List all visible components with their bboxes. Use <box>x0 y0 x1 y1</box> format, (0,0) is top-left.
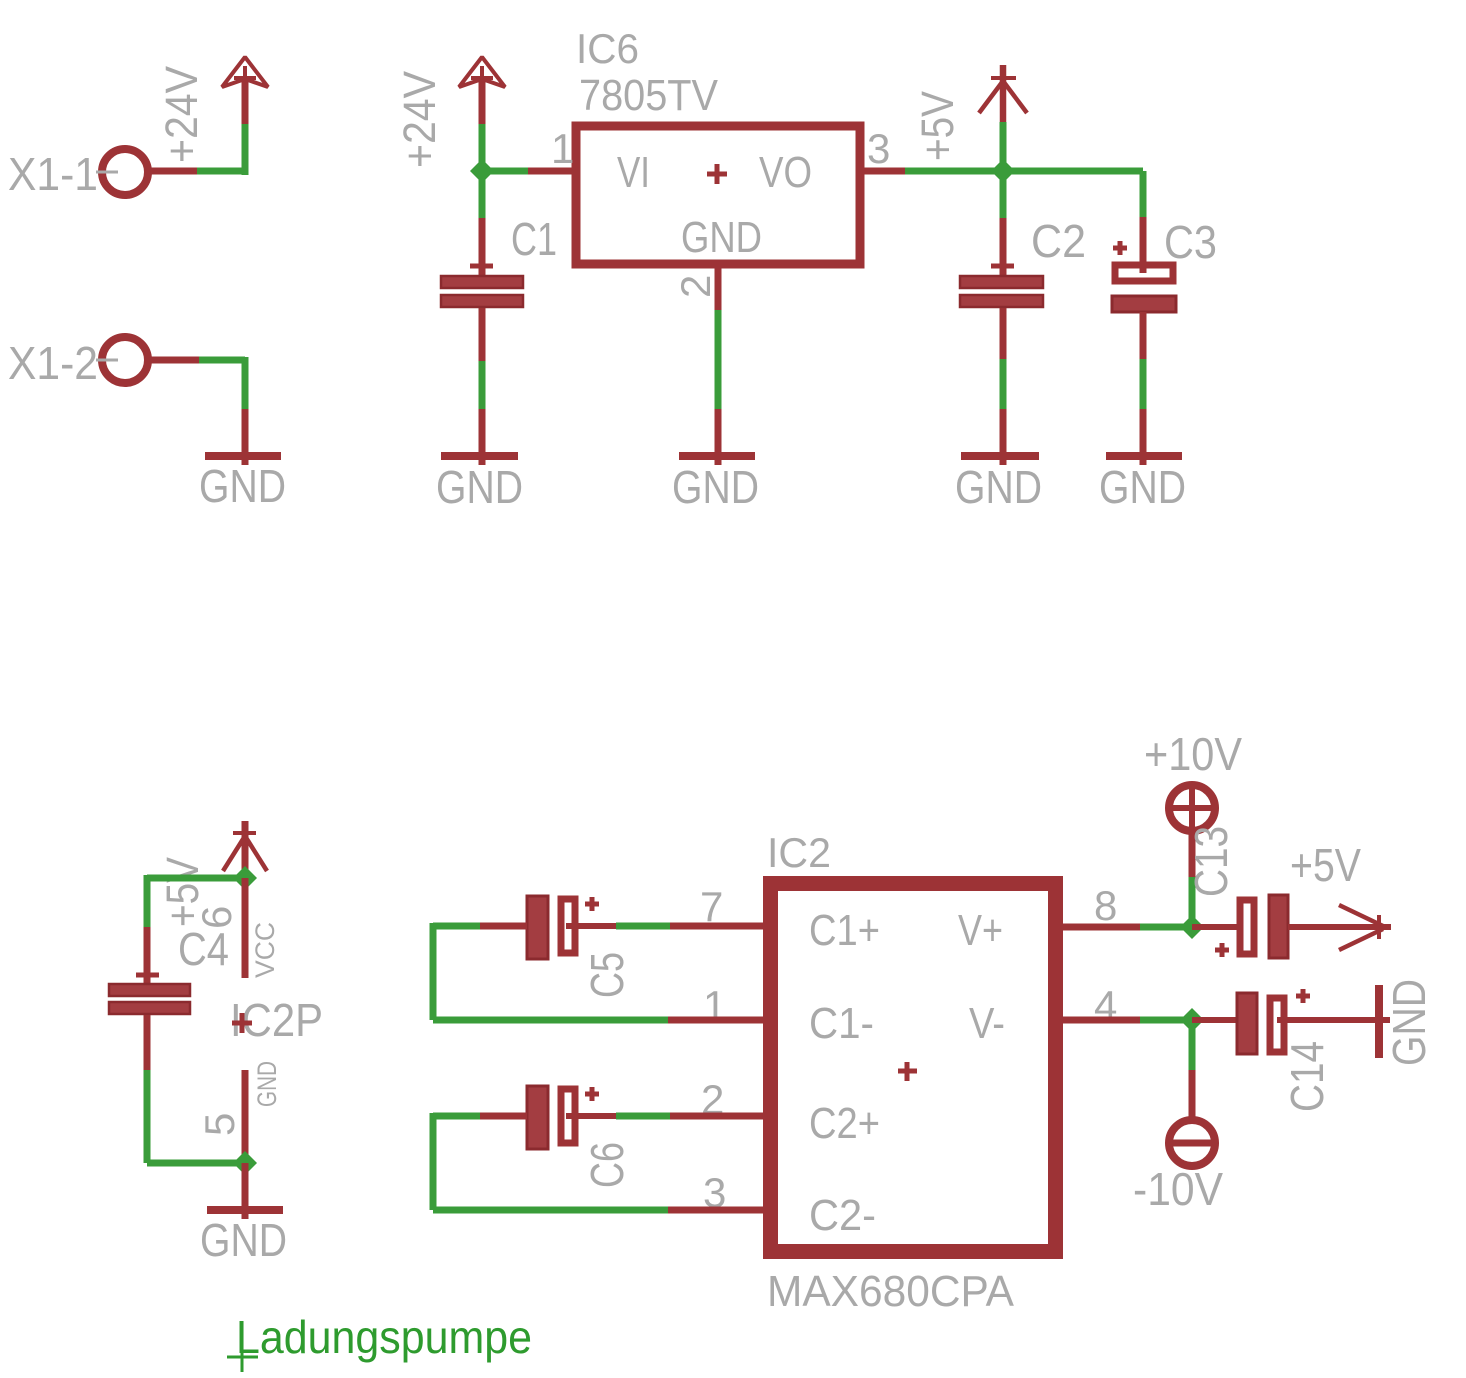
svg-text:GND: GND <box>199 460 286 512</box>
ground symbol (IC6 pin2) <box>672 456 759 513</box>
supply +5V arrow (top) <box>912 78 1027 161</box>
wire C5 left to pin 1 <box>433 923 668 1020</box>
wire junction to C13 <box>1192 924 1248 930</box>
svg-text:C5: C5 <box>581 952 633 998</box>
wire junction to C14 <box>1192 1017 1240 1023</box>
svg-text:+5V: +5V <box>912 91 963 161</box>
pin 1 (VI) of IC6 <box>482 125 574 172</box>
svg-text:IC6: IC6 <box>576 25 639 72</box>
wire C3 to GND <box>1140 312 1147 465</box>
svg-text:V-: V- <box>969 999 1005 1048</box>
svg-text:+24V: +24V <box>156 66 207 163</box>
svg-text:X1-2: X1-2 <box>8 337 98 389</box>
pin 3 (C2-) of IC2 <box>668 1169 763 1216</box>
node junction +5V <box>991 159 1015 183</box>
svg-text:VI: VI <box>617 148 650 197</box>
svg-text:C1+: C1+ <box>809 906 880 955</box>
svg-text:GND: GND <box>1099 461 1186 513</box>
svg-text:MAX680CPA: MAX680CPA <box>767 1267 1015 1316</box>
pin 6 VCC of IC2P <box>193 878 280 978</box>
wire junction to GND symbol <box>242 1163 249 1219</box>
ground symbol (C3) <box>1099 456 1186 513</box>
svg-text:C4: C4 <box>178 923 229 975</box>
node junction V+ <box>1180 915 1204 939</box>
svg-text:C2-: C2- <box>809 1191 876 1240</box>
frame label Ladungspumpe <box>227 1311 532 1372</box>
supply +24V arrow (IC6) <box>394 57 505 168</box>
electrolytic capacitor C5 <box>527 896 633 998</box>
svg-text:C2: C2 <box>1031 215 1086 267</box>
svg-text:GND: GND <box>436 461 523 513</box>
svg-text:3: 3 <box>867 125 890 172</box>
svg-text:C13: C13 <box>1185 826 1237 897</box>
wire C14 to GND <box>1287 1017 1390 1023</box>
svg-text:GND: GND <box>681 213 762 262</box>
wire C6 left to pin 3 <box>433 1113 668 1210</box>
voltage regulator IC6 7805TV <box>576 25 860 264</box>
svg-text:7805TV: 7805TV <box>579 71 719 120</box>
svg-text:8: 8 <box>1094 882 1117 929</box>
svg-text:GND: GND <box>200 1214 287 1266</box>
svg-text:C6: C6 <box>581 1142 633 1188</box>
node junction V- <box>1180 1008 1204 1032</box>
supply -10V circle <box>1133 1120 1223 1215</box>
wire C1 to GND <box>479 308 486 465</box>
supply +5V arrow (right) <box>1290 839 1383 950</box>
ground symbol (X1-2) <box>199 456 286 512</box>
wire junction to +5V arrow <box>1000 65 1007 171</box>
wire junction to C4 top <box>147 875 245 983</box>
svg-text:+5V: +5V <box>1290 839 1361 891</box>
svg-text:C1-: C1- <box>809 999 874 1048</box>
electrolytic capacitor C13 <box>1185 826 1288 958</box>
svg-text:-10V: -10V <box>1133 1163 1223 1215</box>
charge pump IC2 MAX680CPA <box>767 829 1056 1316</box>
svg-text:GND: GND <box>672 461 759 513</box>
ground symbol (C1) <box>436 456 523 513</box>
svg-text:C2+: C2+ <box>809 1099 880 1148</box>
ground symbol (IC2P) <box>200 1210 287 1266</box>
pin 8 (V+) of IC2 <box>1056 882 1192 929</box>
svg-text:+24V: +24V <box>394 71 445 168</box>
pin 3 (VO) of IC6 <box>860 125 1003 172</box>
svg-text:5: 5 <box>196 1113 243 1136</box>
capacitor C1 <box>441 213 557 307</box>
electrolytic capacitor C14 <box>1237 989 1333 1112</box>
capacitor C4 <box>109 923 229 1014</box>
wire C13 to +5V arrow <box>1288 924 1391 930</box>
pin 2 (C2+) of IC2 <box>616 1076 763 1123</box>
wire X1-2 to GND <box>151 357 245 465</box>
svg-text:Ladungspumpe: Ladungspumpe <box>236 1311 532 1363</box>
wire junction to C2 <box>1000 171 1007 275</box>
supply +10V circle <box>1144 728 1242 831</box>
wire C2 to GND <box>1000 308 1007 465</box>
wire junction to C3 <box>1003 171 1143 273</box>
svg-text:GND: GND <box>1383 979 1435 1066</box>
svg-text:1: 1 <box>551 125 574 172</box>
svg-text:C14: C14 <box>1281 1041 1333 1112</box>
wire junction to C1 <box>479 171 486 275</box>
svg-text:GND: GND <box>252 1061 282 1107</box>
ground symbol (C14, rotated) <box>1379 979 1435 1066</box>
wire junction to -10V <box>1189 1020 1196 1120</box>
pin 1 (C1-) of IC2 <box>668 982 763 1029</box>
svg-text:C3: C3 <box>1164 216 1217 268</box>
svg-text:VO: VO <box>759 148 812 197</box>
node junction VCC <box>233 866 257 890</box>
electrolytic capacitor C3 <box>1112 216 1217 312</box>
svg-text:IC2: IC2 <box>767 829 831 876</box>
wire X1-1 to +24V <box>151 78 245 175</box>
pin 4 (V-) of IC2 <box>1056 982 1192 1029</box>
svg-text:V+: V+ <box>958 906 1003 955</box>
connector pad X1-1 <box>8 148 148 200</box>
wire C4 bottom to junction GND <box>147 1015 245 1163</box>
capacitor C2 <box>960 215 1086 307</box>
supply +24V arrow (X1-1) <box>156 57 268 163</box>
supply +5V arrow (IC2P) <box>157 821 267 927</box>
connector pad X1-2 <box>8 337 148 389</box>
electrolytic capacitor C6 <box>527 1086 633 1188</box>
pin 2 (GND) of IC6 <box>672 264 719 465</box>
ground symbol (C2) <box>955 456 1042 513</box>
svg-text:VCC: VCC <box>250 922 280 978</box>
svg-text:2: 2 <box>672 275 719 298</box>
wire junction to +10V <box>1189 831 1196 927</box>
svg-text:GND: GND <box>955 461 1042 513</box>
node junction +24V <box>470 159 494 183</box>
svg-text:X1-1: X1-1 <box>8 148 98 200</box>
wire junction to +24V arrow <box>479 78 486 171</box>
power gate IC2P <box>230 994 323 1046</box>
pin 7 (C1+) of IC2 <box>616 883 763 930</box>
node junction IC2P gnd <box>233 1151 257 1175</box>
svg-text:+10V: +10V <box>1144 728 1242 780</box>
pin 5 GND of IC2P <box>196 1061 282 1163</box>
svg-text:C1: C1 <box>511 213 557 265</box>
